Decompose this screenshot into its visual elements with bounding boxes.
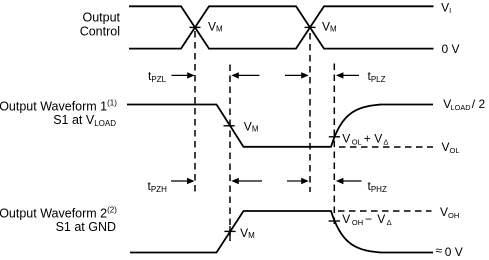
arrow: left-pointing into line D row 2 xyxy=(336,178,362,184)
svg-text:0 V: 0 V xyxy=(442,42,460,56)
arrow: tPZH right-pointing into line A xyxy=(171,178,195,184)
arrow: right-pointing into line C row 1 xyxy=(285,72,309,78)
svg-text:Output: Output xyxy=(82,11,120,25)
svg-text:Output Waveform 2(2): Output Waveform 2(2) xyxy=(0,206,117,221)
svg-text:S1 at GND: S1 at GND xyxy=(56,220,116,234)
wire: output waveform 1 high, falling ramp, low, exponential rise xyxy=(127,105,433,147)
tick: VM crossing waveform 2 horizontal xyxy=(224,230,235,232)
wire: output control waveform low-high-low xyxy=(129,6,434,48)
node: dashed VOL level line xyxy=(339,146,433,148)
wire: output control waveform high-low-high xyxy=(129,6,434,48)
tick: VM crossing waveform 1 xyxy=(224,125,235,127)
svg-text:≈0 V: ≈0 V xyxy=(436,244,463,259)
node: dashed guide line C at x=310 xyxy=(309,33,311,192)
arrow: left-pointing into line D row 1 xyxy=(336,72,359,78)
node: dashed guide line D at x=334.3 xyxy=(333,64,335,227)
tick: VM crossing waveform 2 vertical xyxy=(229,226,231,241)
svg-text:VOL+VΔ: VOL+VΔ xyxy=(342,132,388,147)
arrow: left-pointing into line B row 1 xyxy=(231,72,259,78)
svg-text:Control: Control xyxy=(80,25,120,39)
tick: VM crossing 2 xyxy=(305,26,316,28)
arrow: tPZL right-pointing into line A xyxy=(172,72,195,78)
arrow: left-pointing into line B row 2 xyxy=(231,178,262,184)
node: dashed guide line A at x=195 xyxy=(194,31,196,194)
tick: VOL plus Vdelta point xyxy=(329,136,340,138)
node: dashed VOH level line xyxy=(338,210,432,212)
svg-text:Output Waveform 1(1): Output Waveform 1(1) xyxy=(0,99,117,114)
svg-text:VOH−VΔ: VOH−VΔ xyxy=(342,212,391,227)
arrow: right-pointing into line C row 2 xyxy=(287,178,309,184)
tick: VOH minus Vdelta point xyxy=(329,220,340,222)
wire: output waveform 2 low, rising ramp, high, exponential fall xyxy=(130,211,433,253)
tick: VM crossing 1 xyxy=(190,26,201,28)
node: dashed guide line B at x=230 xyxy=(229,65,231,242)
